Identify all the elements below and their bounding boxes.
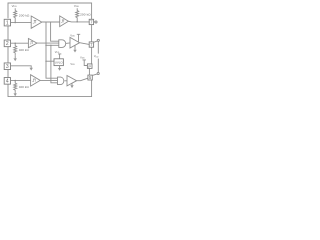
wire UVLO input	[46, 60, 54, 62]
wire C output to output box (pin 6)	[80, 43, 90, 45]
external wire from c2 down	[97, 42, 99, 54]
output pin box (mid right)	[89, 42, 93, 47]
svg-text:VSS: VSS	[70, 62, 75, 66]
comparator A (Schmitt)	[31, 16, 42, 28]
wire G1 output to buffer C	[66, 42, 70, 45]
wire pin2 to comparator A2	[11, 42, 29, 44]
hysteresis symbol in B	[61, 20, 64, 23]
output stage box upper	[87, 64, 92, 69]
node pin1/R1 junction	[14, 22, 16, 24]
output pin box lower	[88, 75, 92, 80]
wire box7 to terminal	[94, 21, 95, 23]
svg-text:400 kΩ: 400 kΩ	[19, 85, 30, 89]
wire E output to lower pin box	[77, 78, 88, 81]
terminal circle c2	[97, 39, 99, 41]
ground arrow below R4	[14, 92, 16, 93]
output pin box 7 (top right)	[89, 19, 93, 24]
hysteresis symbol in A2	[30, 42, 33, 44]
svg-text:3: 3	[6, 64, 9, 70]
svg-text:200 kΩ: 200 kΩ	[80, 13, 91, 17]
wire V1 vertical long rail	[46, 22, 58, 78]
node pin2/R3 junction	[14, 42, 16, 44]
AND gate G1	[59, 40, 66, 48]
wire A output to B input	[42, 21, 60, 23]
wire gate1 bottom input	[46, 44, 59, 46]
wire B output to output box pin 7	[68, 20, 89, 23]
buffer C	[70, 37, 80, 48]
svg-text:VDD: VDD	[74, 4, 80, 8]
pin box 1	[4, 19, 10, 26]
wire pin1 to comparator A	[11, 21, 32, 23]
wire A2 output to gate G1 middle input	[37, 42, 59, 44]
hysteresis symbol in A	[33, 21, 37, 24]
terminal circle pin 7	[95, 21, 97, 23]
ground arrow below R3	[14, 56, 16, 59]
svg-text:VDD: VDD	[94, 54, 99, 58]
wire pin3 with down arrow	[11, 66, 32, 68]
resistor R2 200k pull-up on output node	[76, 8, 79, 21]
svg-text:VDD: VDD	[12, 4, 18, 8]
Vdd rail T-bar above UVLO	[58, 54, 61, 59]
node pin4/R4 junction	[14, 80, 16, 82]
pin box 4	[4, 78, 10, 85]
wire pin4 to comparator D	[11, 79, 31, 81]
pin box 2	[4, 40, 10, 47]
node V1/gate1 bottom branch	[45, 45, 46, 46]
svg-text:4: 4	[6, 79, 9, 85]
svg-text:P: P	[88, 64, 91, 69]
node V1/UVLO branch	[45, 61, 46, 62]
svg-text:VDD: VDD	[70, 33, 75, 37]
svg-text:UVLO: UVLO	[55, 60, 64, 64]
wire V3 vertical to gate G2 bottom input	[51, 45, 58, 83]
wire V2 vertical to gate G1 top input	[51, 22, 59, 41]
wire between output boxes	[88, 68, 90, 75]
external wire continues to c3	[97, 59, 99, 73]
arrowhead pin3 down arrow	[30, 68, 33, 71]
svg-text:VDD: VDD	[80, 55, 85, 59]
svg-text:2: 2	[6, 41, 9, 47]
resistor R3 400k pull-down on pin 2	[14, 43, 17, 56]
node V3 tee	[50, 45, 51, 46]
svg-text:200 kΩ: 200 kΩ	[19, 13, 30, 17]
terminal circle c3	[97, 72, 99, 74]
node R2/output junction	[76, 21, 78, 23]
UVLO block	[54, 59, 63, 66]
wire lower box to terminal c3	[92, 74, 97, 76]
AND gate G2	[58, 77, 64, 85]
Vdd rail T-bar for output stage	[83, 60, 88, 66]
ground arrow below buffer C	[74, 45, 76, 50]
pin box 3	[4, 63, 10, 70]
wire D output to gate G2 middle input	[40, 79, 57, 81]
wire box to terminal c2	[94, 41, 98, 42]
svg-text:400 kΩ: 400 kΩ	[19, 48, 30, 52]
resistor R1 200k pull-up on pin 1	[14, 8, 17, 22]
svg-text:1: 1	[6, 20, 9, 26]
wire G2 output to buffer E	[64, 80, 67, 82]
buffer E	[67, 76, 77, 86]
comparator/buffer B	[60, 16, 69, 27]
Vdd rail T-bar above buffer C	[77, 34, 80, 42]
ground arrow below buffer E	[71, 83, 73, 85]
ground arrow below UVLO	[59, 66, 61, 69]
comparator D (Schmitt)	[31, 75, 41, 86]
resistor R4 400k pull-down on pin 4	[14, 80, 17, 92]
hysteresis symbol in D	[32, 79, 36, 82]
comparator A2 (Schmitt)	[28, 39, 37, 48]
IC border outline	[8, 3, 92, 97]
